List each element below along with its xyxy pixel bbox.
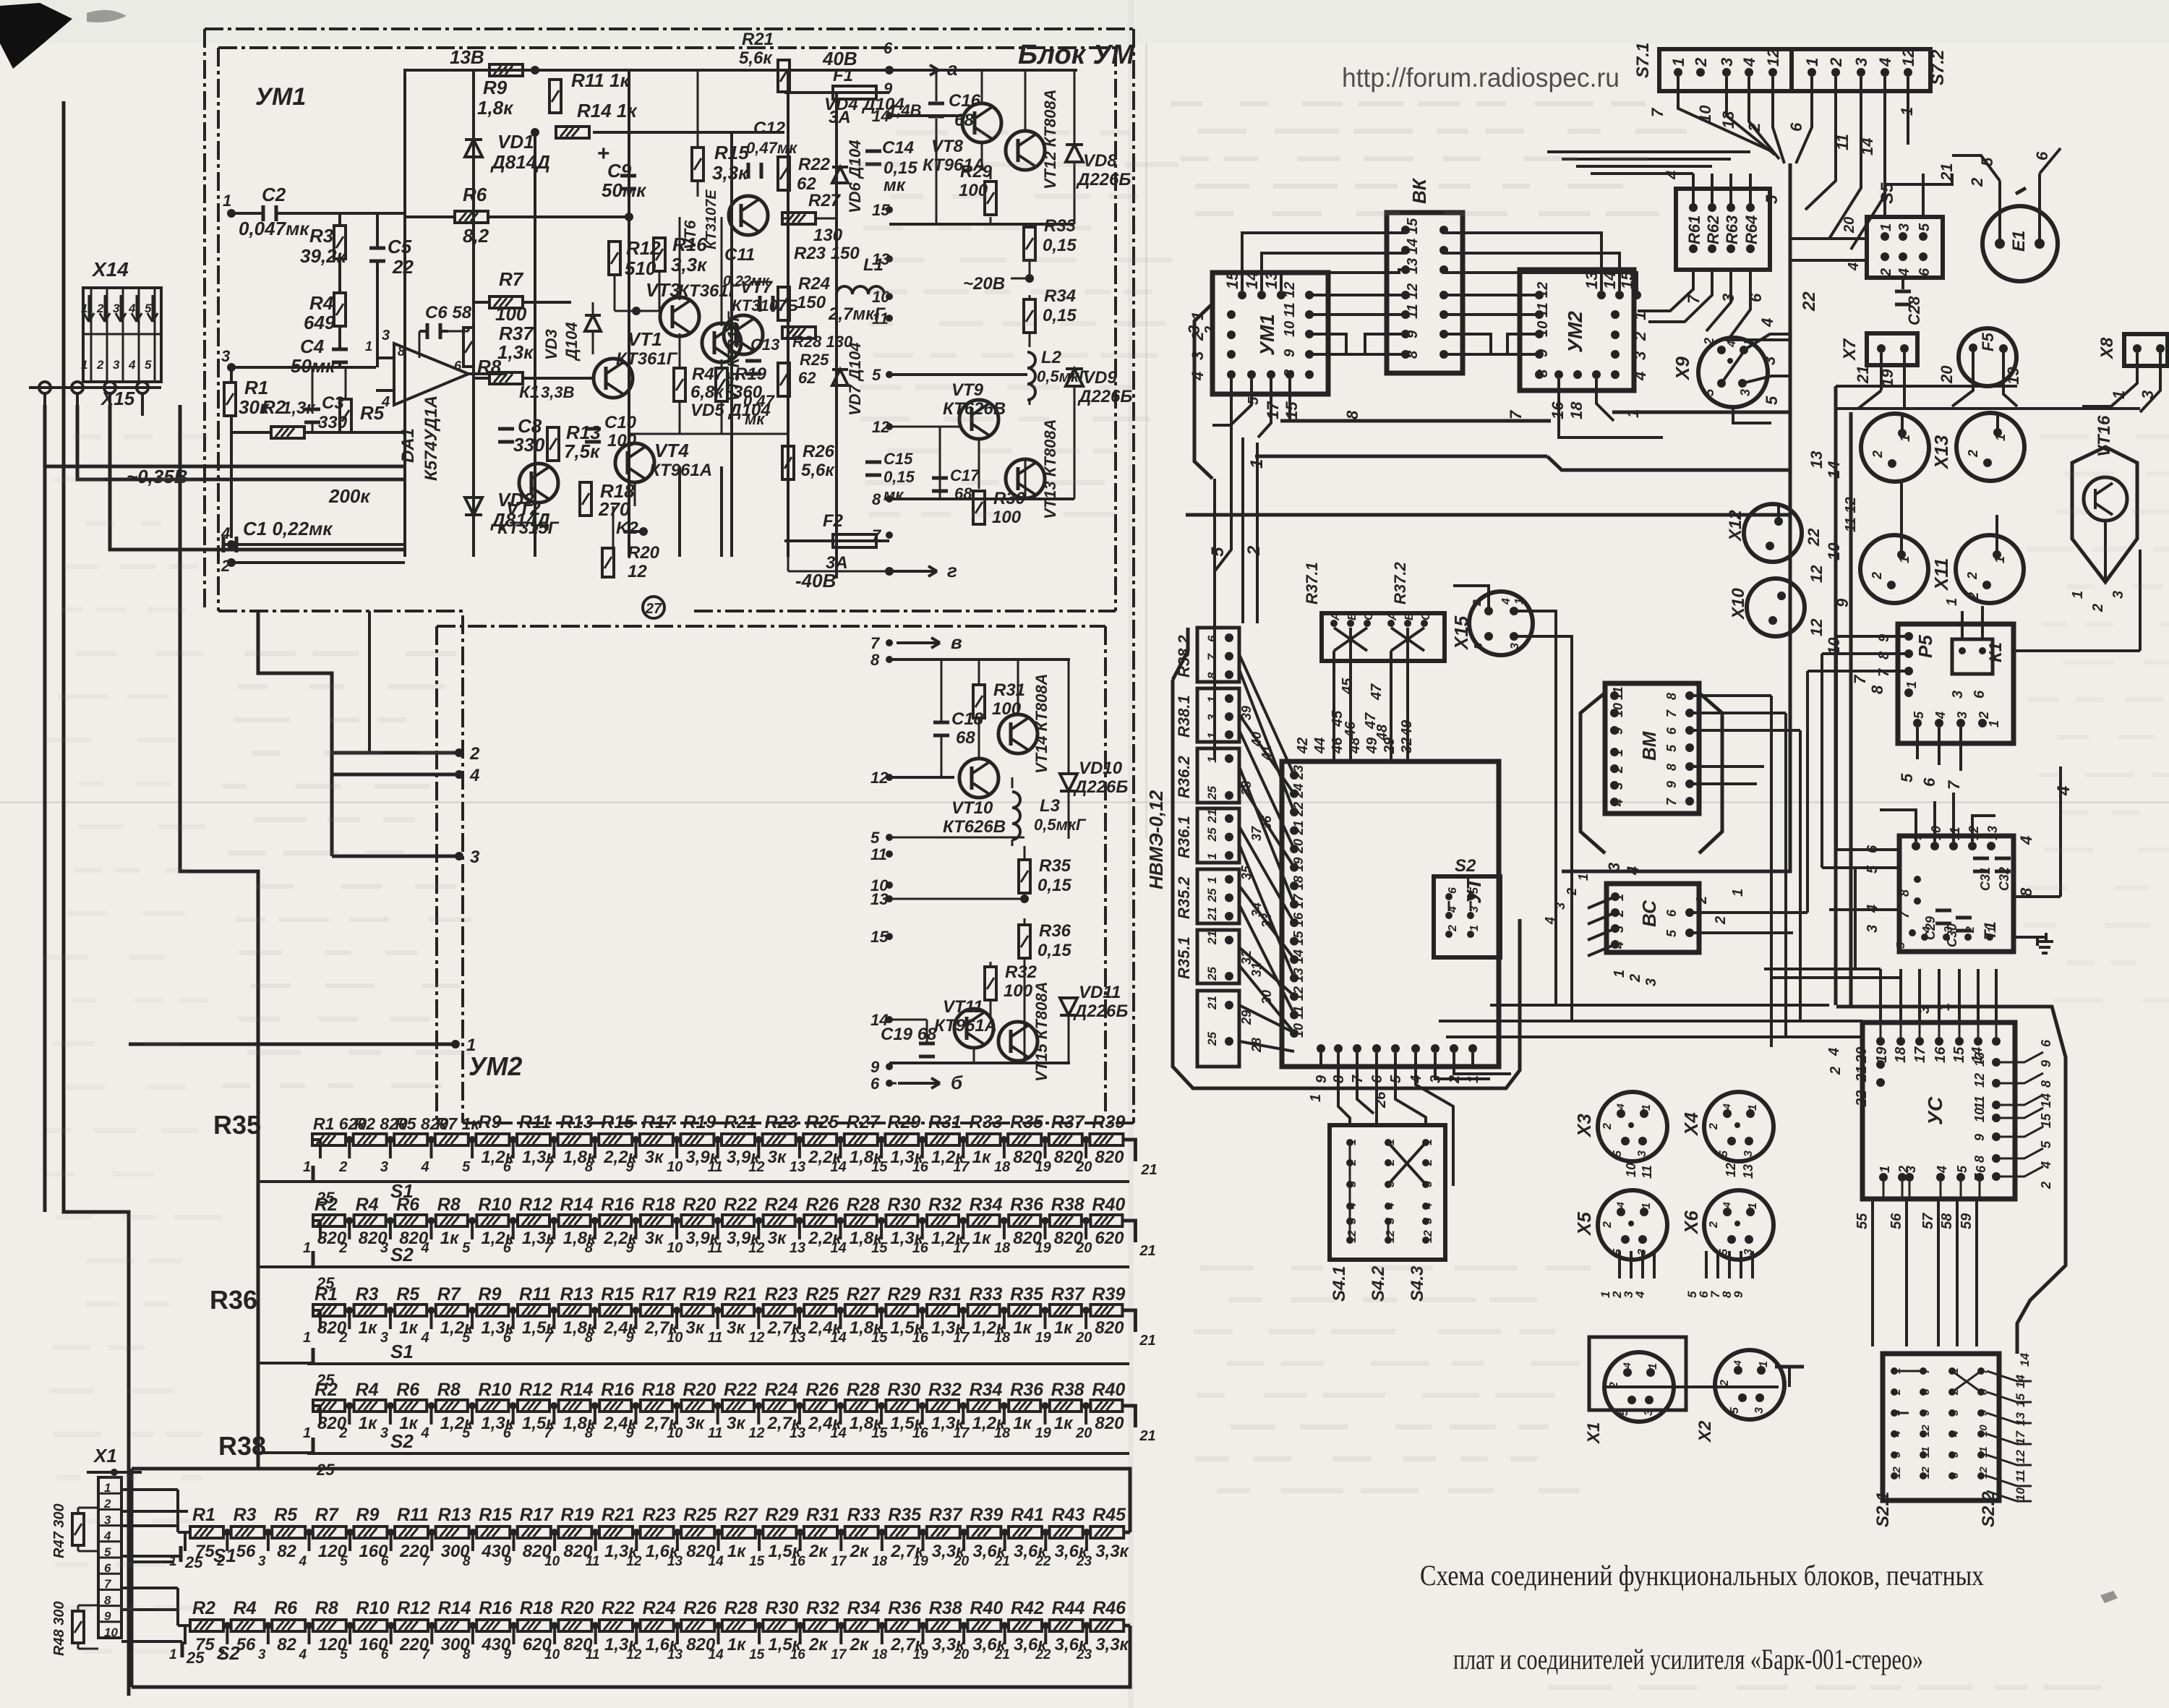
svg-text:17: 17 — [831, 1647, 847, 1662]
svg-text:R41: R41 — [1011, 1505, 1044, 1525]
svg-text:150: 150 — [797, 293, 826, 312]
svg-text:1: 1 — [1669, 58, 1687, 67]
svg-text:R33: R33 — [970, 1112, 1003, 1132]
svg-text:11: 11 — [708, 1159, 723, 1175]
svg-text:20: 20 — [1841, 217, 1857, 234]
svg-text:Е1: Е1 — [2009, 231, 2029, 252]
svg-text:VT10: VT10 — [951, 798, 993, 818]
svg-text:1: 1 — [2070, 591, 2086, 599]
svg-text:7: 7 — [1685, 294, 1703, 304]
svg-text:14: 14 — [1405, 239, 1421, 255]
svg-text:4: 4 — [1896, 268, 1912, 277]
svg-text:11: 11 — [708, 1240, 723, 1256]
svg-text:36: 36 — [1259, 815, 1274, 830]
svg-text:R31: R31 — [928, 1284, 962, 1305]
svg-text:1: 1 — [1205, 877, 1219, 884]
svg-text:13: 13 — [667, 1554, 683, 1569]
svg-text:Х13: Х13 — [1930, 435, 1952, 470]
svg-text:21: 21 — [1291, 820, 1306, 835]
svg-text:R40: R40 — [1092, 1380, 1125, 1400]
svg-text:7: 7 — [422, 1554, 430, 1569]
svg-text:2: 2 — [469, 744, 480, 764]
svg-text:15: 15 — [2014, 1393, 2027, 1407]
svg-text:5: 5 — [340, 1554, 348, 1569]
svg-text:0,5мкГ: 0,5мкГ — [1034, 816, 1087, 834]
svg-text:48: 48 — [1374, 724, 1390, 741]
svg-text:R47 300: R47 300 — [51, 1503, 67, 1558]
svg-text:Х9: Х9 — [1672, 356, 1693, 381]
svg-text:1: 1 — [1631, 312, 1649, 320]
svg-text:820: 820 — [1095, 1148, 1124, 1167]
svg-text:R10: R10 — [478, 1380, 511, 1400]
svg-text:18: 18 — [994, 1425, 1011, 1441]
svg-text:1: 1 — [1647, 1363, 1659, 1370]
svg-text:820: 820 — [1095, 1318, 1124, 1338]
svg-text:20: 20 — [1938, 365, 1956, 384]
svg-text:R23: R23 — [643, 1505, 676, 1525]
svg-text:R29: R29 — [887, 1112, 920, 1132]
svg-text:12: 12 — [1972, 1073, 1987, 1088]
svg-text:1к: 1к — [727, 1542, 747, 1561]
svg-text:6: 6 — [1205, 635, 1219, 642]
svg-text:K2: K2 — [616, 518, 638, 538]
svg-text:R35.1: R35.1 — [1175, 936, 1193, 979]
svg-text:R38.1: R38.1 — [1175, 695, 1193, 738]
svg-text:9: 9 — [626, 1330, 635, 1346]
svg-text:R38: R38 — [929, 1598, 962, 1618]
svg-text:4: 4 — [221, 524, 230, 542]
svg-text:3: 3 — [1636, 1150, 1648, 1157]
svg-text:13: 13 — [1583, 272, 1601, 289]
svg-text:4: 4 — [469, 766, 479, 785]
svg-text:4: 4 — [1933, 712, 1948, 720]
svg-text:С31: С31 — [1978, 867, 1993, 891]
svg-text:2: 2 — [1870, 572, 1884, 580]
svg-text:45: 45 — [1340, 678, 1356, 695]
svg-text:19: 19 — [1035, 1159, 1052, 1175]
svg-text:R21: R21 — [724, 1112, 757, 1132]
svg-text:3: 3 — [1742, 1150, 1755, 1157]
svg-text:0,47мк: 0,47мк — [746, 139, 798, 157]
svg-text:13: 13 — [1972, 1052, 1987, 1067]
svg-text:11: 11 — [1611, 686, 1625, 700]
svg-text:15: 15 — [870, 928, 889, 946]
svg-text:3: 3 — [1761, 356, 1779, 365]
svg-text:S4.2: S4.2 — [1369, 1265, 1388, 1302]
svg-text:2: 2 — [1708, 1123, 1720, 1130]
svg-text:R37.2: R37.2 — [1391, 562, 1409, 605]
svg-text:4: 4 — [421, 1159, 429, 1175]
svg-text:КТ3107Е: КТ3107Е — [703, 189, 719, 249]
svg-text:13: 13 — [1719, 111, 1737, 129]
svg-text:R25: R25 — [805, 1112, 839, 1132]
svg-text:X1: X1 — [93, 1445, 117, 1466]
svg-text:6: 6 — [1664, 909, 1679, 917]
svg-text:R23 150: R23 150 — [794, 244, 860, 263]
svg-text:S4.3: S4.3 — [1408, 1265, 1427, 1302]
svg-text:2: 2 — [1346, 1159, 1359, 1166]
svg-text:0,047мк: 0,047мк — [239, 218, 310, 239]
svg-text:L3: L3 — [1040, 796, 1061, 816]
svg-text:56: 56 — [236, 1542, 256, 1561]
svg-text:R35: R35 — [213, 1110, 261, 1140]
svg-text:50мк: 50мк — [602, 179, 647, 201]
svg-text:R16: R16 — [479, 1598, 513, 1618]
svg-text:VD7 Д104: VD7 Д104 — [846, 342, 864, 416]
svg-text:19: 19 — [1878, 369, 1896, 387]
svg-text:КТ961А: КТ961А — [649, 461, 712, 480]
svg-text:4: 4 — [1614, 1103, 1626, 1110]
svg-text:R8: R8 — [315, 1598, 338, 1618]
svg-text:1: 1 — [1205, 696, 1219, 703]
svg-text:13: 13 — [1405, 258, 1421, 274]
svg-text:1: 1 — [365, 339, 372, 354]
svg-text:R28: R28 — [724, 1598, 758, 1618]
svg-text:7: 7 — [1851, 674, 1869, 684]
svg-text:R24: R24 — [765, 1380, 798, 1400]
svg-text:20: 20 — [1075, 1425, 1092, 1441]
svg-text:1: 1 — [1944, 598, 1960, 606]
svg-text:2: 2 — [338, 1425, 347, 1441]
svg-text:35: 35 — [1239, 865, 1254, 880]
svg-text:R8: R8 — [437, 1380, 461, 1400]
svg-text:1к: 1к — [399, 1318, 419, 1338]
svg-text:~0,35В: ~0,35В — [127, 466, 188, 487]
svg-text:R22: R22 — [724, 1380, 757, 1400]
svg-text:18: 18 — [1893, 1046, 1909, 1063]
svg-text:18: 18 — [994, 1159, 1011, 1175]
svg-text:R12: R12 — [519, 1195, 552, 1215]
svg-text:42: 42 — [1295, 738, 1311, 754]
svg-text:13: 13 — [790, 1425, 805, 1441]
svg-text:25: 25 — [316, 1371, 335, 1389]
svg-text:8: 8 — [870, 651, 880, 669]
svg-text:R3: R3 — [234, 1505, 257, 1525]
svg-text:15: 15 — [749, 1647, 765, 1662]
svg-text:2: 2 — [1565, 888, 1579, 896]
svg-text:4: 4 — [1621, 1362, 1633, 1369]
svg-text:1: 1 — [1904, 681, 1919, 688]
svg-text:R5: R5 — [396, 1284, 420, 1305]
svg-text:5: 5 — [1473, 642, 1485, 649]
svg-text:29: 29 — [1239, 1010, 1254, 1025]
svg-text:С32: С32 — [1997, 867, 2011, 891]
svg-text:4: 4 — [1721, 1202, 1732, 1208]
svg-text:18: 18 — [872, 1647, 888, 1662]
svg-text:14: 14 — [831, 1159, 847, 1175]
svg-text:VT16: VT16 — [2095, 415, 2114, 457]
svg-text:4: 4 — [1876, 58, 1894, 67]
svg-text:5: 5 — [1912, 711, 1926, 719]
svg-text:3: 3 — [1896, 223, 1912, 231]
svg-text:17: 17 — [953, 1240, 970, 1256]
svg-text:47: 47 — [1369, 683, 1385, 701]
svg-text:Т1: Т1 — [1981, 921, 1999, 940]
svg-text:R11: R11 — [397, 1505, 429, 1525]
svg-text:330: 330 — [318, 413, 348, 432]
svg-text:4: 4 — [2017, 836, 2035, 845]
svg-text:R31: R31 — [993, 680, 1025, 700]
svg-text:3к: 3к — [727, 1414, 746, 1433]
svg-text:12: 12 — [1405, 283, 1421, 299]
svg-text:9: 9 — [2039, 1060, 2053, 1067]
svg-text:15: 15 — [1951, 1046, 1967, 1063]
svg-text:8: 8 — [872, 490, 881, 508]
svg-text:3к: 3к — [768, 1229, 787, 1248]
svg-text:А: А — [1387, 612, 1399, 621]
svg-text:С14: С14 — [882, 138, 914, 158]
svg-text:2: 2 — [1965, 572, 1980, 580]
svg-text:16: 16 — [790, 1647, 806, 1662]
svg-text:5: 5 — [1618, 1409, 1630, 1416]
svg-text:12: 12 — [1764, 48, 1782, 67]
svg-text:R27: R27 — [847, 1284, 881, 1305]
svg-text:1к: 1к — [359, 1318, 378, 1338]
svg-text:3к: 3к — [727, 1318, 746, 1338]
svg-text:3: 3 — [1346, 1181, 1359, 1187]
svg-text:2: 2 — [1694, 896, 1710, 905]
svg-text:2: 2 — [338, 1330, 347, 1346]
svg-text:4: 4 — [1732, 1360, 1743, 1367]
svg-text:R1: R1 — [192, 1505, 215, 1525]
svg-text:10: 10 — [104, 1626, 118, 1639]
svg-text:9: 9 — [870, 1058, 880, 1076]
svg-text:12: 12 — [1920, 1466, 1932, 1479]
svg-text:10: 10 — [667, 1240, 683, 1256]
svg-text:18: 18 — [994, 1240, 1011, 1256]
svg-text:2к: 2к — [808, 1635, 829, 1654]
svg-text:18: 18 — [872, 1554, 888, 1569]
svg-text:Д104: Д104 — [562, 322, 581, 362]
svg-text:5: 5 — [1729, 1406, 1741, 1414]
svg-text:3: 3 — [470, 847, 480, 867]
svg-text:R11: R11 — [519, 1112, 551, 1132]
svg-text:2: 2 — [1878, 268, 1894, 277]
svg-text:12: 12 — [748, 1425, 764, 1441]
svg-text:12: 12 — [748, 1159, 764, 1175]
svg-text:7: 7 — [1945, 780, 1963, 790]
svg-text:7: 7 — [1648, 107, 1667, 117]
svg-text:12: 12 — [1385, 1230, 1397, 1243]
svg-text:1: 1 — [1205, 853, 1219, 860]
svg-text:5: 5 — [1612, 1150, 1624, 1157]
svg-text:12: 12 — [626, 1554, 642, 1569]
svg-text:23: 23 — [1076, 1554, 1092, 1569]
svg-text:R16: R16 — [601, 1195, 635, 1215]
svg-text:15: 15 — [871, 1425, 888, 1441]
svg-text:R30: R30 — [887, 1380, 920, 1400]
svg-text:8: 8 — [1343, 410, 1361, 419]
svg-text:R36.1: R36.1 — [1175, 816, 1193, 858]
svg-text:11: 11 — [1640, 1165, 1654, 1179]
svg-text:S2: S2 — [390, 1244, 414, 1265]
svg-text:R37: R37 — [1051, 1112, 1085, 1132]
svg-text:КТ3107Б: КТ3107Б — [732, 296, 798, 315]
svg-text:57: 57 — [1920, 1213, 1936, 1229]
svg-text:15: 15 — [872, 201, 890, 219]
svg-text:9: 9 — [504, 1647, 512, 1662]
svg-text:R21: R21 — [724, 1284, 757, 1305]
svg-text:14: 14 — [2018, 1353, 2032, 1367]
svg-text:6: 6 — [503, 1425, 512, 1441]
svg-text:2: 2 — [338, 1159, 347, 1175]
svg-text:25: 25 — [186, 1649, 205, 1667]
svg-text:10: 10 — [667, 1159, 683, 1175]
svg-text:12: 12 — [748, 1330, 764, 1346]
svg-text:УМ2: УМ2 — [1564, 311, 1586, 353]
svg-text:1: 1 — [169, 1647, 177, 1662]
svg-text:5: 5 — [1978, 157, 1996, 166]
svg-text:1: 1 — [1205, 756, 1219, 763]
svg-text:3: 3 — [1611, 782, 1625, 790]
svg-text:10: 10 — [1696, 105, 1714, 123]
svg-text:Блок УМ: Блок УМ — [1018, 40, 1135, 70]
svg-text:F5: F5 — [1979, 333, 1997, 351]
svg-text:25: 25 — [316, 1189, 335, 1207]
svg-text:1: 1 — [1640, 1203, 1653, 1209]
svg-text:5: 5 — [1702, 388, 1716, 396]
svg-text:2: 2 — [1966, 450, 1980, 458]
svg-text:8: 8 — [1405, 350, 1421, 359]
svg-text:2: 2 — [1631, 331, 1649, 341]
svg-text:100: 100 — [495, 303, 527, 325]
svg-text:R19: R19 — [560, 1505, 594, 1525]
svg-text:1к: 1к — [440, 1229, 460, 1248]
svg-text:100: 100 — [1004, 981, 1033, 1001]
svg-text:100: 100 — [992, 508, 1022, 527]
svg-text:R6: R6 — [463, 184, 487, 205]
svg-text:8: 8 — [398, 344, 405, 359]
svg-text:R64: R64 — [1742, 215, 1761, 244]
svg-text:8: 8 — [2039, 1080, 2053, 1088]
svg-text:1к: 1к — [1054, 1414, 1074, 1433]
svg-text:3: 3 — [380, 1240, 388, 1256]
svg-text:R12: R12 — [626, 237, 661, 259]
svg-text:R18: R18 — [642, 1195, 675, 1215]
svg-text:R35: R35 — [1010, 1284, 1044, 1305]
svg-text:8: 8 — [1664, 764, 1679, 771]
svg-text:13: 13 — [2014, 1412, 2027, 1426]
svg-text:4: 4 — [1921, 926, 1933, 934]
svg-text:3к: 3к — [768, 1148, 787, 1167]
svg-text:R39: R39 — [970, 1505, 1003, 1525]
svg-text:3: 3 — [1553, 902, 1567, 910]
svg-text:R13: R13 — [560, 1284, 594, 1305]
svg-text:2: 2 — [1601, 1123, 1614, 1130]
svg-text:13В: 13В — [450, 46, 484, 68]
svg-text:25: 25 — [316, 1274, 335, 1292]
svg-text:1: 1 — [81, 358, 87, 372]
svg-text:R24: R24 — [765, 1195, 798, 1215]
svg-text:12: 12 — [1899, 48, 1917, 67]
svg-text:R15: R15 — [714, 142, 749, 163]
svg-text:7: 7 — [544, 1159, 552, 1175]
svg-text:15: 15 — [1223, 271, 1241, 289]
svg-text:46: 46 — [1343, 721, 1359, 738]
svg-text:1: 1 — [1747, 1104, 1759, 1111]
svg-text:10: 10 — [667, 1425, 683, 1441]
svg-text:1: 1 — [1346, 1139, 1359, 1145]
svg-text:2: 2 — [1422, 1159, 1434, 1166]
svg-text:1: 1 — [303, 1159, 311, 1175]
svg-text:Д814Д: Д814Д — [490, 151, 550, 173]
svg-text:21: 21 — [1938, 163, 1956, 182]
svg-text:30: 30 — [1259, 990, 1274, 1004]
svg-text:5: 5 — [870, 829, 880, 847]
svg-text:R36: R36 — [1039, 921, 1071, 941]
svg-text:21: 21 — [1139, 1333, 1155, 1349]
svg-text:20: 20 — [953, 1647, 970, 1662]
svg-text:17: 17 — [953, 1159, 970, 1175]
svg-text:2: 2 — [1244, 545, 1264, 556]
svg-text:R4: R4 — [309, 292, 334, 314]
svg-text:VT11: VT11 — [943, 997, 983, 1017]
svg-text:14: 14 — [872, 107, 889, 125]
svg-text:22: 22 — [1800, 291, 1819, 312]
svg-text:УМ2: УМ2 — [469, 1051, 522, 1081]
svg-text:-40В: -40В — [795, 570, 836, 592]
svg-text:ВК: ВК — [1408, 177, 1430, 204]
svg-text:1к: 1к — [727, 1635, 747, 1654]
svg-text:R27: R27 — [724, 1505, 758, 1525]
svg-text:330: 330 — [513, 434, 545, 456]
svg-text:VT2: VT2 — [506, 498, 541, 519]
svg-text:R13: R13 — [560, 1112, 594, 1132]
svg-text:R7: R7 — [499, 268, 524, 290]
svg-text:3: 3 — [1719, 294, 1737, 302]
svg-text:Х8: Х8 — [2097, 337, 2117, 360]
svg-text:3: 3 — [1205, 714, 1219, 721]
svg-text:R35: R35 — [1010, 1112, 1044, 1132]
svg-text:14: 14 — [2014, 1375, 2027, 1388]
svg-text:21: 21 — [1139, 1243, 1155, 1259]
svg-text:20: 20 — [1075, 1330, 1092, 1346]
svg-text:13: 13 — [1985, 826, 2000, 840]
svg-text:VD8: VD8 — [1083, 151, 1117, 171]
svg-text:3: 3 — [258, 1647, 266, 1662]
svg-text:0,15: 0,15 — [1038, 876, 1071, 895]
svg-text:3: 3 — [113, 358, 120, 372]
svg-text:15: 15 — [871, 1330, 888, 1346]
svg-text:8: 8 — [463, 1647, 471, 1662]
svg-text:9: 9 — [626, 1159, 635, 1175]
svg-text:R34: R34 — [970, 1195, 1003, 1215]
svg-text:4: 4 — [1846, 262, 1862, 271]
svg-text:R34: R34 — [847, 1598, 881, 1618]
svg-text:Д226Б: Д226Б — [1076, 170, 1131, 189]
svg-text:9: 9 — [1405, 330, 1421, 338]
svg-text:Б: Б — [1403, 612, 1416, 620]
svg-text:1к: 1к — [359, 1414, 378, 1433]
svg-text:10: 10 — [544, 1647, 560, 1662]
svg-text:5: 5 — [462, 1330, 471, 1346]
svg-text:R39: R39 — [1092, 1284, 1125, 1305]
svg-text:1: 1 — [303, 1240, 311, 1256]
svg-text:5: 5 — [1385, 1217, 1397, 1224]
svg-text:R27: R27 — [847, 1112, 881, 1132]
svg-text:R19: R19 — [683, 1284, 716, 1305]
svg-text:3: 3 — [258, 1554, 266, 1569]
svg-text:3,3к: 3,3к — [712, 162, 749, 184]
svg-text:5: 5 — [1422, 1217, 1434, 1224]
svg-text:12: 12 — [748, 1240, 764, 1256]
svg-text:1: 1 — [1513, 598, 1526, 605]
svg-text:21: 21 — [1205, 996, 1219, 1010]
svg-text:11: 11 — [1972, 1096, 1987, 1109]
svg-text:КТ361Г: КТ361Г — [616, 349, 678, 369]
svg-text:59: 59 — [1959, 1213, 1975, 1229]
svg-text:R18: R18 — [642, 1380, 675, 1400]
